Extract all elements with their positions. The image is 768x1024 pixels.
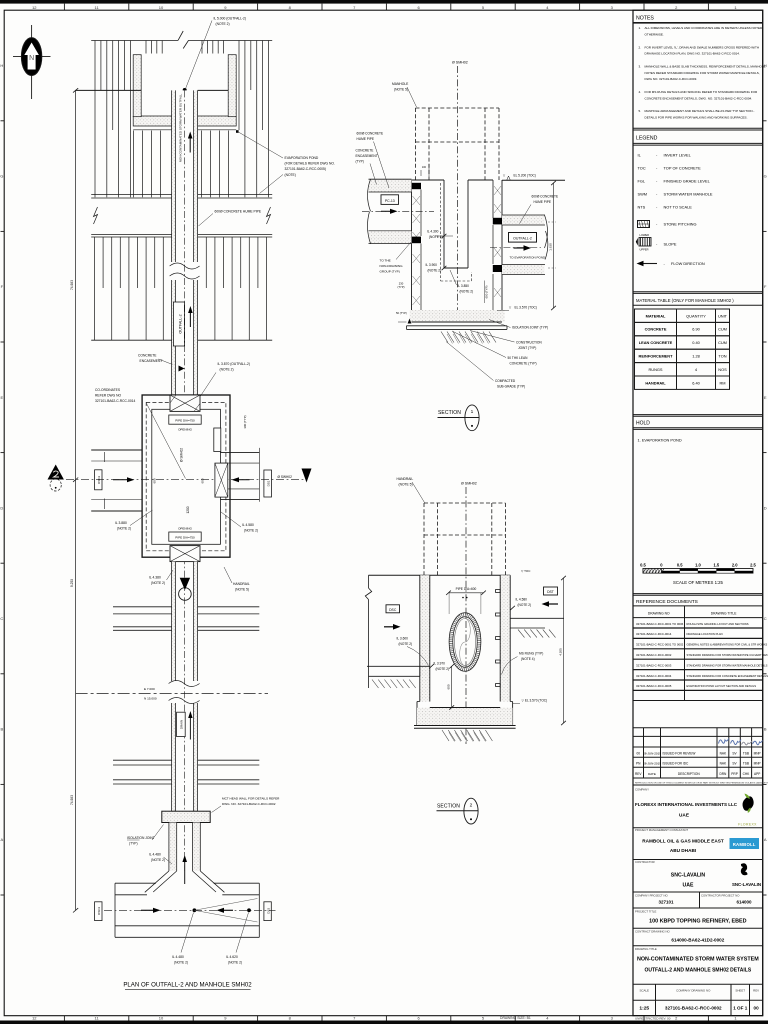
material table [635, 309, 730, 322]
svg-text:1200: 1200 [186, 506, 190, 513]
svg-text:0.40: 0.40 [692, 340, 700, 345]
svg-text:IL 4.300: IL 4.300 [427, 230, 439, 234]
svg-text:(NOTE 2): (NOTE 2) [518, 603, 532, 607]
svg-text:HUME PIPE: HUME PIPE [534, 200, 552, 204]
dsc2 box label [95, 470, 102, 490]
svg-text:SLOPE: SLOPE [664, 242, 677, 247]
svg-text:MATERIAL: MATERIAL [646, 313, 666, 318]
svg-text:B: B [0, 727, 3, 732]
svg-text:NON-CONTAMINATED STORM WATER O: NON-CONTAMINATED STORM WATER OUTFALL [179, 94, 183, 163]
svg-text:100 KBPD TOPPING REFINERY, EBE: 100 KBPD TOPPING REFINERY, EBED [649, 919, 746, 925]
section 2 right dim line [563, 578, 565, 723]
svg-text:PN: PN [636, 762, 641, 766]
flow arrow up 3 [189, 717, 191, 740]
svg-text:327101-BA62-C-RCC-0004: 327101-BA62-C-RCC-0004 [636, 674, 672, 678]
svg-text:IL 3.900: IL 3.900 [426, 263, 438, 267]
section 2 cut marker right [302, 469, 312, 483]
section 1 ground line right [502, 179, 565, 181]
title block column [633, 10, 763, 1015]
section 2 pipe circle [451, 615, 479, 670]
svg-text:Ø SMH02: Ø SMH02 [452, 61, 468, 65]
svg-text:OPENING: OPENING [178, 527, 193, 531]
svg-text:DRAWING SIZE: B1: DRAWING SIZE: B1 [500, 1016, 531, 1020]
svg-text:ROUGH SITE GRADING LAYOUT AND: ROUGH SITE GRADING LAYOUT AND SECTIONS [687, 622, 749, 626]
svg-text:DST: DST [547, 590, 554, 594]
svg-text:300 (TYP): 300 (TYP) [243, 415, 247, 428]
svg-text:327101-BA62-C-RCC-0002: 327101-BA62-C-RCC-0002 [636, 653, 672, 657]
svg-text:CONSTRUCTION: CONSTRUCTION [516, 341, 542, 345]
flow arrow up 4 [184, 861, 186, 885]
svg-text:RAMBOLL OIL & GAS MIDDLE EAST: RAMBOLL OIL & GAS MIDDLE EAST [642, 839, 724, 844]
svg-text:1.28: 1.28 [692, 354, 700, 359]
svg-text:1.630: 1.630 [549, 243, 553, 251]
svg-text:DRN: DRN [719, 772, 727, 776]
ditch flow arrows [141, 909, 155, 911]
svg-text:NAK: NAK [720, 762, 727, 766]
svg-text:IL 4.620: IL 4.620 [226, 955, 238, 959]
svg-text:COMPANY DRAWING NO: COMPANY DRAWING NO [676, 989, 711, 993]
revision table [633, 727, 763, 729]
svg-text:FOR MS RUNG DETAILS AND SPACIN: FOR MS RUNG DETAILS AND SPACING REFER TO… [645, 90, 758, 94]
svg-text:NTS: NTS [638, 205, 646, 210]
svg-text:HOLD: HOLD [636, 420, 650, 426]
svg-text:EVAPORATION POND LAYOUT SECTIO: EVAPORATION POND LAYOUT SECTION AND DETA… [687, 684, 757, 688]
svg-text:CONCRETE: CONCRETE [645, 327, 667, 332]
svg-text:600Ø CONCRETE: 600Ø CONCRETE [532, 195, 559, 199]
svg-text:600: 600 [447, 684, 451, 689]
svg-text:SCALE OF METRES 1:25: SCALE OF METRES 1:25 [673, 580, 724, 585]
left dimension line [75, 90, 77, 910]
svg-text:MATERIAL TABLE (ONLY FOR MANH: MATERIAL TABLE (ONLY FOR MANHOLE SMH02 ) [636, 298, 734, 303]
svg-text:327101: 327101 [658, 900, 674, 905]
svg-text:IL 4.580: IL 4.580 [516, 598, 528, 602]
svg-text:327101-BA62-C-RCC-0005): 327101-BA62-C-RCC-0005) [285, 167, 326, 171]
section 1 left pipe pc-13 [369, 179, 412, 192]
svg-text:28-JUN-2019: 28-JUN-2019 [643, 762, 661, 766]
manhole plan dashed outline [146, 402, 226, 550]
section 1 pc-13 label [381, 195, 399, 205]
svg-text:SECTION: SECTION [438, 410, 461, 416]
flow tick in channel [179, 366, 185, 372]
scale sheet rev row [655, 984, 657, 1015]
svg-text:2.5: 2.5 [750, 563, 756, 568]
svg-text:NON-CONTAMINATED STORM WATER S: NON-CONTAMINATED STORM WATER SYSTEM [637, 957, 759, 963]
section 2 ground right [510, 617, 564, 619]
right inlet pipe [221, 452, 260, 454]
svg-text:STANDARD DRAWING FOR STORM WAT: STANDARD DRAWING FOR STORM WATER PIPE CU… [687, 653, 768, 657]
junction dots and thin V [193, 908, 197, 912]
svg-text:DSC2: DSC2 [97, 906, 101, 914]
section 1 wall top dim [420, 170, 422, 176]
svg-text:ISSUED FOR REVIEW: ISSUED FOR REVIEW [663, 752, 696, 756]
svg-text:0.5: 0.5 [640, 563, 646, 568]
svg-text:MNP: MNP [754, 752, 761, 756]
svg-text:FOR INVERT LEVEL 'IL', DRAIN A: FOR INVERT LEVEL 'IL', DRAIN AND SWALE N… [645, 45, 760, 49]
road crossing mid-2 [113, 759, 172, 761]
svg-text:ISOLATION JOINT: ISOLATION JOINT [127, 836, 155, 840]
svg-text:FINISHED GRADE LEVEL: FINISHED GRADE LEVEL [664, 179, 711, 184]
svg-text:A: A [0, 837, 3, 842]
svg-text:(NOTE 5): (NOTE 5) [399, 483, 413, 487]
manhole centerlines [184, 557, 186, 871]
ds1 box label [264, 470, 272, 497]
svg-text:SNC-LAVALIN: SNC-LAVALIN [732, 882, 761, 887]
svg-text:TSB: TSB [743, 752, 749, 756]
flow arrow up 1 [189, 137, 191, 153]
svg-text:FGL: FGL [638, 179, 646, 184]
svg-text:IL 3.970: IL 3.970 [434, 662, 446, 666]
manhole sump notch [214, 428, 221, 452]
svg-text:1. EVAPORATION POND: 1. EVAPORATION POND [638, 438, 682, 443]
svg-text:ENCASEMENT: ENCASEMENT [356, 154, 378, 158]
svg-text:600: 600 [153, 478, 157, 483]
svg-text:327101-BA62-C-RCC-0005: 327101-BA62-C-RCC-0005 [636, 684, 672, 688]
svg-text:LOWER: LOWER [640, 233, 650, 237]
svg-text:327101-BA62-C-RCC-0014: 327101-BA62-C-RCC-0014 [636, 632, 672, 636]
right pipe flow arrow [237, 479, 250, 481]
svg-text:REINFORCEMENT: REINFORCEMENT [639, 354, 674, 359]
svg-text:(NOTE 5): (NOTE 5) [235, 588, 249, 592]
svg-text:DS3: DS3 [267, 908, 271, 914]
section 2 right-flow arrow [384, 626, 395, 628]
channel centerline upper [184, 90, 186, 395]
svg-text:IL 3.600: IL 3.600 [397, 637, 409, 641]
ramboll logo [730, 838, 760, 849]
svg-text:5.: 5. [639, 109, 642, 113]
section 1 structure walls [412, 179, 445, 181]
svg-text:A: A [764, 837, 767, 842]
svg-text:6.40: 6.40 [692, 380, 700, 385]
svg-text:(NOTE 5): (NOTE 5) [394, 88, 408, 92]
svg-text:Ø SMH02: Ø SMH02 [461, 482, 477, 486]
pipe dia box top [169, 415, 201, 424]
svg-text:NON-DRAINING: NON-DRAINING [380, 264, 404, 268]
svg-text:DS1: DS1 [267, 480, 271, 486]
svg-text:FLOW DIRECTION: FLOW DIRECTION [671, 261, 705, 266]
svg-text:EL 3.570 (TOC): EL 3.570 (TOC) [515, 306, 537, 310]
svg-text:EVAPORATION POND: EVAPORATION POND [285, 156, 319, 160]
outfall channel upper segment walls [172, 90, 198, 395]
svg-text:ABU DHABI: ABU DHABI [670, 848, 696, 853]
svg-text:ISSUED FOR IDC: ISSUED FOR IDC [663, 762, 690, 766]
svg-text:600Ø CONCRETE HUME PIPE: 600Ø CONCRETE HUME PIPE [215, 210, 262, 214]
svg-text:JOINT (TYP): JOINT (TYP) [518, 346, 536, 350]
svg-text:(NOTE 2): (NOTE 2) [429, 235, 443, 239]
svg-text:CO-ORDINATES: CO-ORDINATES [95, 388, 121, 392]
road crossing upper [91, 194, 171, 196]
svg-text:QUANTITY: QUANTITY [686, 313, 706, 318]
svg-text:UPPER: UPPER [640, 248, 649, 252]
section 1 right dim line [553, 183, 555, 308]
svg-text:EL 5.200 (TOC): EL 5.200 (TOC) [514, 174, 536, 178]
svg-text:MCT HEAD WALL FOR DETAILS REFE: MCT HEAD WALL FOR DETAILS REFER [222, 797, 280, 801]
left grid letters [1, 120, 5, 122]
section 1 pc-13 flow arrow [381, 210, 392, 212]
svg-text:CHK: CHK [743, 772, 751, 776]
svg-text:74.983: 74.983 [70, 280, 74, 290]
channel below manhole [172, 562, 176, 681]
signatures [719, 739, 730, 744]
svg-text:1: 1 [471, 409, 474, 415]
svg-text:614000-BA62-41D2-0002: 614000-BA62-41D2-0002 [671, 938, 724, 943]
reference documents table [684, 606, 686, 701]
section 2 600 dim [451, 666, 453, 707]
svg-text:E 7.000: E 7.000 [144, 687, 155, 691]
top black bar [0, 0, 768, 4]
svg-text:CONTRACT DRAWING NO: CONTRACT DRAWING NO [635, 929, 670, 933]
svg-text:NOTES REFER STANDARD DRAWING F: NOTES REFER STANDARD DRAWING FOR STORM W… [645, 71, 760, 75]
head wall flange [162, 811, 210, 822]
channel break squiggles [170, 263, 200, 269]
svg-text:REV: REV [635, 772, 642, 776]
left pipe flow arrow [113, 479, 129, 481]
svg-text:CUM: CUM [718, 327, 727, 332]
svg-text:H: H [0, 63, 3, 68]
manhole top opening [170, 395, 200, 411]
svg-text:IL 4.480: IL 4.480 [172, 955, 184, 959]
right wall opening xbox [215, 463, 228, 497]
svg-text:PRP: PRP [731, 772, 738, 776]
svg-text:(NOTE 2): (NOTE 2) [244, 529, 258, 533]
svg-text:327101-BA62-C-RCC-0003: 327101-BA62-C-RCC-0003 [636, 663, 672, 667]
svg-text:327101-BA62-C-RCC-0014: 327101-BA62-C-RCC-0014 [95, 399, 135, 403]
snc logo bird [741, 863, 748, 875]
svg-text:600 (TYP): 600 (TYP) [485, 286, 489, 299]
pond bottom edge line [91, 339, 171, 341]
section 2 left-flow arrow [547, 603, 558, 605]
svg-text:ISOLATION JOINT (TYP): ISOLATION JOINT (TYP) [512, 326, 548, 330]
svg-text:CONCRETE: CONCRETE [356, 149, 374, 153]
svg-text:TOC: TOC [638, 166, 646, 171]
road crossing mid-1 [113, 606, 172, 608]
svg-text:SWM: SWM [638, 192, 648, 197]
svg-text:PROJECT MANAGEMENT CONSULTANT: PROJECT MANAGEMENT CONSULTANT [635, 828, 688, 832]
svg-text:6.90: 6.90 [692, 327, 700, 332]
svg-text:MNP: MNP [754, 762, 761, 766]
svg-text:1:25: 1:25 [639, 1006, 649, 1012]
svg-text:IL 3.850: IL 3.850 [458, 284, 470, 288]
svg-text:SNC-LAVALIN: SNC-LAVALIN [671, 873, 706, 879]
material table header [633, 291, 763, 293]
svg-text:D: D [0, 505, 3, 510]
hold header [633, 414, 763, 416]
svg-text:APP: APP [754, 772, 760, 776]
outfall ditch horizontal [115, 882, 156, 884]
evaporation pond top edge line [91, 39, 178, 41]
section 1 outfall-2 boxed label [509, 233, 537, 243]
svg-text:LEGEND: LEGEND [636, 136, 658, 142]
svg-text:ENCASEMENT: ENCASEMENT [140, 359, 163, 363]
channel to funnel with encasement stipple [169, 823, 177, 872]
svg-text:RUNGS: RUNGS [648, 367, 662, 372]
svg-text:G: G [0, 174, 3, 179]
svg-text:OTHERWISE.: OTHERWISE. [645, 33, 664, 37]
svg-text:LEAN CONCRETE: LEAN CONCRETE [639, 340, 673, 345]
svg-text:C: C [764, 616, 767, 621]
svg-text:PIPE DIA=600: PIPE DIA=600 [456, 587, 477, 591]
scale bar [643, 569, 753, 574]
svg-text:CONTRACTOR: CONTRACTOR [635, 860, 655, 864]
svg-text:10: 10 [159, 1016, 164, 1021]
svg-text:B: B [764, 727, 767, 732]
svg-text:4.: 4. [639, 90, 642, 94]
svg-text:9.253: 9.253 [70, 579, 74, 587]
svg-text:327101-BA62-C-RCC-0001 TO 0006: 327101-BA62-C-RCC-0001 TO 0006 [636, 622, 684, 626]
svg-text:(FOR DETAILS REFER DWG NO.: (FOR DETAILS REFER DWG NO. [285, 162, 335, 166]
svg-text:1.0: 1.0 [695, 563, 701, 568]
funnel flare [145, 871, 169, 892]
manhole plan inner [152, 409, 221, 544]
svg-text:UAE: UAE [679, 813, 689, 818]
section 2 walls [420, 575, 430, 701]
pond upper hatch field [94, 41, 96, 197]
pond mid hatch below apron [133, 131, 135, 198]
svg-text:(TYP): (TYP) [356, 160, 364, 164]
bottom black bar [0, 1021, 768, 1024]
svg-text:PLAN OF OUTFALL-2 AND MANHOLE: PLAN OF OUTFALL-2 AND MANHOLE SMH02 [123, 982, 252, 989]
svg-text:NOT TO SCALE: NOT TO SCALE [664, 205, 693, 210]
svg-text:Ø SWH02: Ø SWH02 [278, 475, 293, 479]
north arrow [31, 25, 33, 99]
svg-text:10: 10 [159, 5, 164, 10]
svg-text:2.0: 2.0 [732, 563, 738, 568]
svg-text:OPENING: OPENING [178, 428, 193, 432]
svg-text:12: 12 [32, 1016, 37, 1021]
svg-text:100: 100 [422, 166, 427, 169]
svg-text:IL 3.880: IL 3.880 [115, 521, 127, 525]
svg-text:PIPE DIA=750: PIPE DIA=750 [175, 536, 195, 540]
svg-text:(NOTE 2): (NOTE 2) [117, 527, 131, 531]
section 1 outfall centerline [490, 247, 541, 249]
pond apron stipple U [133, 55, 141, 117]
svg-text:28-JUN-2019: 28-JUN-2019 [643, 752, 661, 756]
notes header [633, 22, 763, 24]
svg-text:▽ TOC: ▽ TOC [521, 569, 531, 573]
svg-text:TOP OF CONCRETE: TOP OF CONCRETE [664, 166, 702, 171]
svg-text:DRAINAGE LOCATION PLAN, DWG NO: DRAINAGE LOCATION PLAN, DWG NO. 327101-B… [645, 52, 740, 56]
svg-text:DRAIN: DRAIN [180, 720, 184, 729]
svg-text:NOTES: NOTES [636, 16, 654, 22]
svg-text:GENERAL NOTES & ABBREVIATIONS: GENERAL NOTES & ABBREVIATIONS FOR CIVIL … [687, 643, 768, 647]
svg-text:00: 00 [636, 752, 640, 756]
svg-text:IL 3.870 (OUTFALL-2): IL 3.870 (OUTFALL-2) [218, 362, 251, 366]
svg-text:(NOTE 2): (NOTE 2) [151, 581, 165, 585]
svg-text:600Ø CONCRETE: 600Ø CONCRETE [357, 132, 384, 136]
svg-text:2.: 2. [639, 45, 642, 49]
left inlet pipe [91, 449, 142, 451]
flow arrow up 2 [189, 311, 191, 327]
section 2 left ground hatch [372, 680, 379, 689]
svg-text:NOS: NOS [718, 367, 727, 372]
section 2 dst label [544, 587, 558, 595]
svg-text:TSB: TSB [743, 762, 749, 766]
svg-text:INVERT LEVEL: INVERT LEVEL [664, 153, 692, 158]
pond lower hatch field [94, 237, 96, 340]
svg-text:E: E [764, 395, 767, 400]
svg-text:2: 2 [470, 803, 473, 809]
reference documents header [633, 593, 763, 595]
svg-text:DATE: DATE [648, 772, 656, 776]
svg-text:MANHOLE WALL & BASE SLAB THICK: MANHOLE WALL & BASE SLAB THICKNESS, REIN… [645, 64, 766, 68]
svg-text:DWG NO. 327101-BA62-C-RCC-0003: DWG NO. 327101-BA62-C-RCC-0003. [645, 77, 698, 81]
dsc2 box bottom left [95, 902, 102, 921]
svg-text:N 15.000: N 15.000 [144, 697, 157, 701]
ds3 box bottom right [264, 902, 271, 921]
svg-text:HANDRAIL: HANDRAIL [645, 380, 666, 385]
svg-text:TO EVAPORATION POND: TO EVAPORATION POND [510, 256, 547, 260]
svg-text:C: C [0, 616, 3, 621]
svg-text:REFERENCE DOCUMENTS: REFERENCE DOCUMENTS [636, 599, 698, 605]
svg-text:(NOTE 2): (NOTE 2) [428, 269, 442, 273]
svg-text:UNIT: UNIT [718, 313, 728, 318]
svg-text:00: 00 [754, 1006, 760, 1011]
drain vertical label box [177, 712, 186, 736]
svg-text:DETAILS FOR PIPE WORKS FOR WAL: DETAILS FOR PIPE WORKS FOR WALKING AND W… [645, 115, 748, 119]
svg-text:(NOTE): (NOTE) [285, 173, 296, 177]
svg-text:(NOTE 2): (NOTE 2) [436, 667, 450, 671]
svg-text:STORM WATER MANHOLE: STORM WATER MANHOLE [664, 192, 713, 197]
svg-text:SHEET: SHEET [735, 989, 745, 993]
svg-text:RM: RM [719, 380, 725, 385]
svg-text:CUM: CUM [718, 340, 727, 345]
svg-text:IL 4.580: IL 4.580 [242, 523, 254, 527]
ditch centerline [104, 909, 276, 911]
section 1 subgrade hatch [441, 332, 448, 343]
svg-text:▽ EL 3.570 (TOC): ▽ EL 3.570 (TOC) [522, 699, 548, 703]
svg-text:MANHOLE ARRANGEMENT AND DETAIL: MANHOLE ARRANGEMENT AND DETAILS SHALL BE… [645, 109, 755, 113]
svg-text:PIPE DIA=750: PIPE DIA=750 [175, 419, 195, 423]
svg-text:(TYP): (TYP) [397, 285, 404, 289]
svg-text:(NOTE 2): (NOTE 2) [460, 290, 474, 294]
svg-text:(TYP): (TYP) [129, 842, 138, 846]
svg-text:SCALE: SCALE [640, 989, 650, 993]
svg-text:MS RUNG (TYP): MS RUNG (TYP) [519, 652, 543, 656]
svg-text:HUME PIPE: HUME PIPE [357, 137, 375, 141]
svg-text:GROUP (TYP): GROUP (TYP) [380, 270, 400, 274]
section 1 base slab stipple [410, 310, 505, 322]
svg-text:12: 12 [32, 5, 37, 10]
svg-text:CONTRACTOR PROJECT NO: CONTRACTOR PROJECT NO [701, 894, 740, 898]
matchline break [169, 681, 200, 687]
svg-text:STANDARD DRAWING FOR CONCRETE: STANDARD DRAWING FOR CONCRETE ENCASEMENT… [687, 674, 768, 678]
legend header [633, 127, 763, 129]
section 2 cut marker left [48, 465, 64, 480]
svg-text:MANHOLE: MANHOLE [392, 82, 409, 86]
svg-text:TON: TON [718, 354, 726, 359]
svg-text:(NOTE 4): (NOTE 4) [521, 657, 535, 661]
outfall-2 vertical label box [173, 302, 184, 346]
svg-text:614000: 614000 [736, 900, 752, 905]
svg-text:DESCRIPTION: DESCRIPTION [678, 772, 700, 776]
svg-text:230: 230 [399, 282, 404, 286]
svg-text:OUTFALL-2: OUTFALL-2 [178, 314, 182, 333]
section 1 pipe centerline [362, 210, 434, 212]
svg-text:(NOTE 2): (NOTE 2) [220, 368, 234, 372]
svg-text:TO THE: TO THE [380, 259, 391, 263]
svg-text:REFER DWG NO: REFER DWG NO [95, 394, 121, 398]
pond inner edge line with outfall inlet dot [76, 89, 142, 91]
manhole smh02 plan outer [142, 395, 230, 557]
project numbers row [699, 892, 701, 908]
section 2 dsc label [386, 605, 400, 613]
svg-text:CONCRETE (TYP): CONCRETE (TYP) [510, 362, 537, 366]
section 2 footing [417, 701, 420, 703]
section 2 centerline [465, 487, 467, 744]
svg-text:RAMBOLL: RAMBOLL [733, 842, 756, 847]
section 2 handrail dashed outline [423, 503, 425, 575]
svg-text:4.205: 4.205 [559, 648, 563, 656]
svg-text:FLOREXX: FLOREXX [738, 823, 757, 827]
